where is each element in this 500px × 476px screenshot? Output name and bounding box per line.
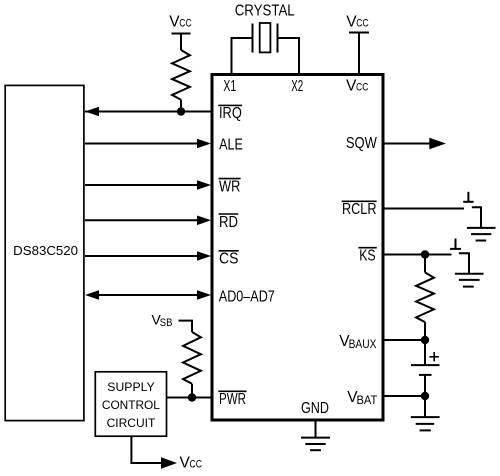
svg-text:CIRCUIT: CIRCUIT [107, 416, 156, 430]
wire R1 to IRQ line [180, 100, 182, 112]
wire X1 to crystal [232, 38, 253, 75]
svg-text:CC: CC [356, 18, 368, 30]
wire PWR [167, 397, 213, 399]
wire RD [85, 219, 198, 221]
svg-text:SB: SB [160, 317, 173, 329]
pin RCLR label [342, 201, 377, 218]
ground (GND pin) [301, 438, 330, 451]
IC U1 DS83C520 box [5, 85, 84, 420]
power VCC bottom [180, 455, 202, 472]
svg-text:KS: KS [359, 247, 375, 264]
wire R2 to PWR line [191, 384, 193, 398]
svg-text:X1: X1 [223, 78, 236, 95]
wire supply box to VCC arrow [131, 437, 161, 463]
wire VBAUX [383, 339, 425, 341]
pin IRQ label [218, 105, 242, 122]
pin WR label [219, 178, 241, 195]
supply control circuit box [95, 372, 166, 436]
svg-text:CONTROL: CONTROL [102, 398, 160, 412]
battery BT1 [411, 340, 440, 396]
pin CS label [219, 251, 239, 268]
IC U2 RTC main box [212, 75, 383, 421]
wire SQW [383, 143, 430, 145]
wire ALE [85, 143, 198, 145]
wire X2 to crystal [278, 38, 300, 75]
svg-text:RCLR: RCLR [342, 201, 377, 218]
wire R3 to VBAUX [424, 322, 426, 340]
wire KS [383, 254, 452, 256]
svg-text:WR: WR [219, 178, 240, 195]
pin PWR label [218, 391, 246, 408]
node PWR junction [188, 393, 196, 401]
wire IRQ [85, 111, 212, 113]
svg-text:X2: X2 [291, 78, 303, 95]
node VBAT junction [421, 392, 429, 400]
node KS junction [421, 250, 429, 258]
wire VBAT [383, 395, 425, 397]
pin KS label [358, 247, 376, 264]
svg-text:BAUX: BAUX [349, 337, 377, 351]
svg-text:AD0–AD7: AD0–AD7 [219, 288, 275, 305]
switch S2 (KS pushbutton) [450, 239, 469, 274]
ground (KS switch) [455, 274, 484, 287]
svg-text:IRQ: IRQ [219, 105, 242, 122]
ground (RCLR switch) [467, 228, 496, 241]
node VBAUX junction [421, 336, 429, 344]
node IRQ junction [177, 107, 185, 115]
wire KS junction to R3 [424, 255, 426, 273]
pin RD label [219, 214, 239, 231]
svg-text:CC: CC [356, 82, 368, 94]
crystal Y1 [235, 2, 295, 52]
resistor R2 (VSB) [183, 332, 201, 384]
svg-text:SUPPLY: SUPPLY [107, 380, 154, 394]
wire WR [85, 184, 198, 186]
wire AD0-AD7 (bidirectional) [98, 294, 198, 296]
svg-text:SQW: SQW [346, 135, 377, 152]
svg-text:PWR: PWR [219, 391, 246, 408]
power VCC top-right [346, 14, 369, 75]
svg-text:ALE: ALE [219, 137, 243, 154]
wire GND to ground [315, 420, 317, 438]
pin VBAT label [347, 389, 378, 407]
pin VBAUX label [339, 333, 376, 351]
resistor R3 (KS to VBAUX) [416, 272, 434, 322]
svg-text:DS83C520: DS83C520 [13, 243, 78, 258]
pin VCC (top right inside) [346, 78, 368, 95]
svg-text:CC: CC [190, 459, 202, 471]
wire RCLR [383, 208, 464, 210]
ground (battery) [411, 417, 440, 430]
switch S1 (RCLR pushbutton) [463, 192, 481, 228]
svg-text:CC: CC [179, 18, 191, 30]
wire VSB to R2 [179, 321, 193, 332]
svg-text:CS: CS [219, 251, 239, 268]
wire CS [85, 255, 198, 257]
svg-text:RD: RD [219, 214, 238, 231]
svg-text:BAT: BAT [357, 393, 378, 407]
svg-text:GND: GND [301, 400, 329, 417]
wire VBAT to ground [424, 396, 426, 417]
power VCC top-left [169, 14, 191, 50]
resistor R1 (IRQ pullup) [172, 50, 190, 100]
svg-text:CRYSTAL: CRYSTAL [235, 2, 295, 19]
power VSB [152, 311, 173, 329]
